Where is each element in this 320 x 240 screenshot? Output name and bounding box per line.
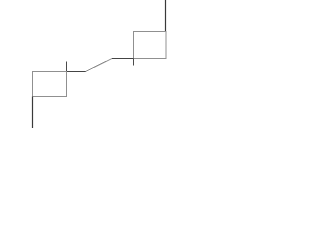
wire: horizontal segment from R1 bottom-left pin bbox=[112, 58, 134, 60]
wire: horizontal segment into R2 top-right pin bbox=[67, 71, 86, 73]
wire: top lead into R1 top-right pin bbox=[165, 0, 167, 32]
wire: diagonal segment between R1 and R2 bbox=[86, 59, 113, 72]
wire: stub below R1 bottom-left pin bbox=[133, 59, 135, 66]
wire: bottom lead from R2 bottom-left pin bbox=[32, 97, 34, 129]
wire: stub above R2 top-right pin bbox=[66, 62, 68, 72]
resistor R1 (IEC box, upper right) bbox=[134, 32, 167, 59]
resistor R2 (IEC box, lower left) bbox=[33, 72, 67, 97]
